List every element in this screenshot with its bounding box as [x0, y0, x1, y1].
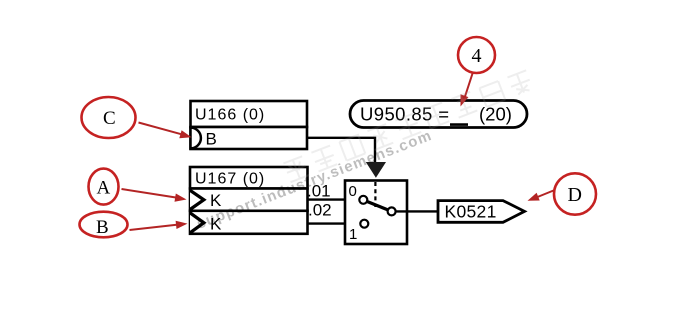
switch input terminal 0	[359, 196, 367, 204]
svg-text:U166 (0): U166 (0)	[195, 107, 265, 124]
svg-text:4: 4	[472, 45, 482, 67]
output connector K0521	[438, 201, 525, 223]
wire .02	[308, 222, 361, 224]
svg-text:(20): (20)	[479, 103, 512, 124]
function block U167 row 1	[190, 189, 308, 211]
svg-text:U167 (0): U167 (0)	[195, 171, 265, 188]
svg-text:0: 0	[349, 183, 357, 200]
selector switch box	[345, 181, 407, 245]
callout C arrow	[139, 123, 192, 139]
switch arm	[367, 201, 388, 210]
callout B arrow	[130, 221, 188, 230]
dashed control line	[374, 182, 376, 207]
callout D arrow	[528, 191, 554, 201]
switch output terminal	[388, 207, 396, 215]
callout D circle	[554, 173, 596, 214]
callout B ellipse	[80, 212, 128, 238]
svg-text:D: D	[568, 184, 582, 206]
output wire	[396, 210, 438, 212]
control arrowhead	[366, 162, 386, 178]
svg-text:K0521: K0521	[445, 201, 497, 221]
dynamic input zigzag row 1	[190, 190, 204, 209]
comment box U950.85	[350, 101, 527, 128]
blank underline	[450, 123, 468, 126]
wire from U166.B to selector control	[307, 138, 375, 163]
callout A arrow	[122, 189, 187, 202]
callout C ellipse	[82, 97, 136, 138]
function block U166 header	[191, 101, 308, 127]
switch input terminal 1	[360, 220, 368, 228]
callout 4 arrow	[461, 74, 473, 107]
watermark cjk line	[283, 70, 533, 182]
svg-text:B: B	[96, 217, 109, 238]
negation notch on input B	[191, 128, 201, 149]
watermark url line	[194, 127, 434, 233]
function block U166 input row	[191, 127, 308, 149]
callout 4 circle	[458, 37, 495, 73]
function block U167 header	[190, 167, 308, 189]
dynamic input zigzag row 2	[190, 213, 204, 233]
svg-text:C: C	[103, 108, 116, 129]
wire .01	[308, 198, 360, 200]
svg-text:.02: .02	[308, 201, 332, 220]
svg-text:1: 1	[349, 226, 357, 243]
function block U167 row 2	[190, 211, 308, 234]
callout A ellipse	[89, 169, 119, 205]
svg-text:A: A	[97, 178, 111, 199]
svg-text:B: B	[206, 130, 217, 149]
